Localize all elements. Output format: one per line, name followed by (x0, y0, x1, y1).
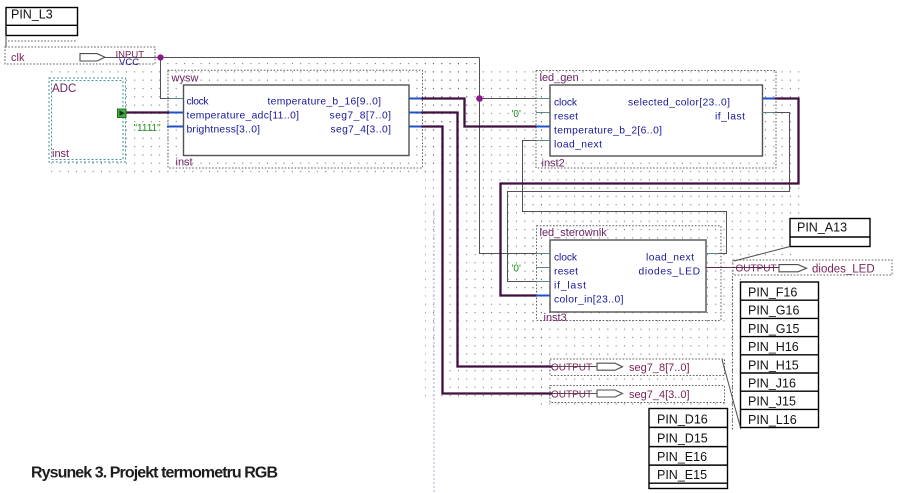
selection rect of clk input pin (5, 41, 155, 64)
svg-text:PIN_D16: PIN_D16 (657, 413, 708, 427)
svg-text:seg7_8[7..0]: seg7_8[7..0] (629, 362, 690, 374)
grid dots zone E (around seg7 output symbols) (540, 345, 740, 410)
OUTPUT diodes_LED pin symbol (779, 265, 807, 272)
grid dots zone A (around ADC and wysw) (46, 66, 470, 174)
grid dots zone G (left of PIN_A13) (740, 230, 792, 262)
svg-text:'0': '0' (512, 109, 521, 120)
svg-text:selected_color[23..0]: selected_color[23..0] (628, 98, 730, 109)
svg-text:if_last: if_last (554, 281, 586, 292)
stub blue wysw out temperature_b_16 (409, 98, 422, 100)
stub teal led_sterownik load_next out (706, 253, 718, 255)
svg-text:Rysunek 3. Projekt termometru: Rysunek 3. Projekt termometru RGB (31, 465, 278, 482)
svg-text:diodes_LED: diodes_LED (639, 267, 701, 278)
block led_gen body (550, 85, 763, 156)
svg-text:inst: inst (52, 148, 69, 160)
grid dots below led_gen (536, 168, 776, 230)
svg-text:PIN_H15: PIN_H15 (748, 358, 799, 372)
stub teal wysw clock (170, 98, 183, 100)
grid dots strip above wysw (162, 59, 480, 68)
stub blue led_gen temperature_b_2 (536, 126, 550, 128)
stub teal led_gen load_next (536, 140, 550, 142)
svg-text:PIN_D15: PIN_D15 (657, 432, 708, 446)
stub blue wysw brightness (167, 126, 183, 128)
stub blue wysw out seg7_8 (409, 112, 422, 114)
svg-text:'0': '0' (512, 264, 521, 275)
svg-text:PIN_E15: PIN_E15 (657, 468, 707, 482)
svg-text:reset: reset (554, 267, 578, 278)
svg-text:seg7_4[3..0]: seg7_4[3..0] (331, 125, 392, 136)
selection rect of led_sterownik (537, 226, 722, 321)
svg-text:diodes_LED: diodes_LED (812, 264, 875, 276)
OUTPUT seg7_4 pin symbol (597, 390, 623, 397)
junction clk node 2 (476, 95, 483, 102)
wire if_last net (508, 113, 790, 282)
svg-text:wysw: wysw (171, 73, 199, 85)
svg-text:PIN_J16: PIN_J16 (748, 377, 796, 391)
svg-text:brightness[3..0]: brightness[3..0] (187, 125, 261, 136)
stub blue wysw out seg7_4 (409, 126, 422, 128)
stub blue led_gen selected_color out (763, 98, 776, 100)
sheet boundary (blue dashed) (433, 210, 435, 493)
stub blue wysw temperature_adc (169, 112, 183, 114)
wire OUTPUT seg7_8 stub line (552, 366, 597, 368)
svg-text:OUTPUT: OUTPUT (736, 264, 777, 275)
svg-text:"1111": "1111" (134, 123, 162, 134)
block wysw body (184, 85, 410, 156)
svg-text:inst3: inst3 (544, 312, 567, 324)
pin location box PIN_A13 (790, 219, 870, 247)
svg-text:seg7_4[3..0]: seg7_4[3..0] (629, 389, 690, 401)
grid dots middle channel right (481, 70, 545, 403)
selection rect of wysw (168, 70, 423, 168)
block ADC body (dashed teal) (49, 78, 126, 162)
grid dots zone D (around led_sterownik) (525, 230, 740, 340)
wire bus temperature_b_16 (421, 99, 537, 127)
svg-text:clock: clock (187, 97, 210, 108)
selection rect of led_gen (536, 71, 776, 169)
wire diodes_LED to OUTPUT (706, 267, 779, 269)
svg-text:OUTPUT: OUTPUT (551, 390, 592, 401)
selection rect of OUTPUT diodes_LED (733, 260, 892, 275)
svg-text:temperature_b_2[6..0]: temperature_b_2[6..0] (554, 126, 662, 137)
svg-text:color_in[23..0]: color_in[23..0] (554, 295, 624, 306)
svg-text:inst2: inst2 (542, 158, 565, 170)
pin table bottom (seg7_4 pins) (649, 409, 728, 489)
svg-text:PIN_L16: PIN_L16 (748, 413, 797, 427)
selection rect of OUTPUT seg7_8 (550, 359, 725, 376)
svg-text:PIN_E16: PIN_E16 (657, 450, 707, 464)
svg-text:load_next: load_next (554, 140, 602, 151)
svg-text:led_gen: led_gen (540, 72, 579, 84)
svg-text:seg7_8[7..0]: seg7_8[7..0] (330, 111, 392, 122)
svg-text:PIN_J15: PIN_J15 (748, 395, 796, 409)
stub teal led_gen clock (536, 98, 550, 100)
junction clk node 1 (157, 54, 163, 60)
svg-text:ADC: ADC (52, 83, 76, 95)
svg-text:PIN_F16: PIN_F16 (748, 286, 797, 300)
svg-text:PIN_A13: PIN_A13 (797, 221, 847, 235)
block led_sterownik body (550, 240, 706, 312)
svg-text:PIN_G16: PIN_G16 (748, 304, 799, 318)
svg-text:PIN_L3: PIN_L3 (11, 8, 53, 22)
svg-text:VCC: VCC (119, 57, 139, 68)
pin table right (diodes_LED pins) (741, 282, 819, 428)
wire bus ADC to temperature_adc (126, 111, 171, 113)
svg-text:clk: clk (11, 52, 25, 64)
svg-text:clock: clock (554, 98, 578, 109)
selection rect of OUTPUT seg7_4 (550, 386, 725, 403)
stub teal led_sterownik if_last (536, 281, 550, 283)
svg-text:temperature_b_16[9..0]: temperature_b_16[9..0] (268, 97, 382, 108)
INPUT pin symbol (pentagon) (80, 54, 105, 61)
OUTPUT seg7_8 pin symbol (597, 363, 623, 370)
svg-text:load_next: load_next (646, 253, 694, 264)
wire bus seg7_8 (421, 113, 553, 367)
ADC output port marker (green) (118, 109, 127, 118)
wire bus seg7_4 (421, 127, 553, 394)
grid dots middle channel left (425, 63, 481, 403)
grid dots right band (x 776-800) (776, 70, 800, 230)
stub blue led_sterownik color_in (536, 295, 550, 297)
wire bus selected_color to color_in (501, 99, 799, 296)
stub teal led_gen reset (536, 112, 550, 114)
svg-text:inst: inst (176, 157, 193, 169)
stub teal led_sterownik reset (536, 267, 550, 269)
svg-text:PIN_G15: PIN_G15 (748, 322, 799, 336)
svg-text:if_last: if_last (715, 112, 745, 123)
wire OUTPUT seg7_4 stub line (552, 393, 597, 395)
wire clk vertical down to led_sterownik (480, 58, 538, 254)
wire clk horizontal from INPUT (105, 58, 790, 394)
wire clk branch to led_gen clock (480, 98, 538, 100)
stub teal led_sterownik clock (536, 253, 550, 255)
svg-text:OUTPUT: OUTPUT (551, 363, 592, 374)
wire clk branch down to wysw clock (161, 58, 173, 99)
svg-text:PIN_H16: PIN_H16 (748, 340, 799, 354)
selection line left of pin table (732, 276, 734, 431)
pointer line PIN_A13 to OUTPUT diodes_LED (734, 247, 790, 262)
stub teal led_gen if_last out (763, 112, 776, 114)
grid dots inside led_gen selection (536, 71, 776, 169)
grid dots zone F (left of right pin table) (728, 276, 742, 432)
svg-text:reset: reset (554, 112, 578, 123)
pointer line seg7_8 box to right pin table (722, 360, 740, 428)
svg-text:temperature_adc[11..0]: temperature_adc[11..0] (187, 111, 300, 122)
pin location box PIN_L3 (6, 8, 78, 48)
wire load_next net (523, 141, 727, 254)
svg-text:led_sterownik: led_sterownik (540, 227, 608, 239)
svg-text:clock: clock (554, 253, 578, 264)
